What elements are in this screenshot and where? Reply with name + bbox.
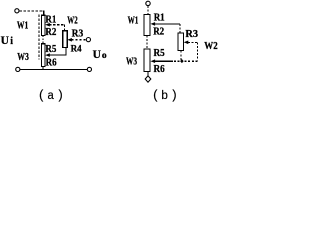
resistor R3 body	[178, 33, 183, 51]
svg-text:R2: R2	[45, 27, 56, 38]
wiper W2: dashed shaft wrap-around	[188, 41, 198, 43]
svg-text:R6: R6	[46, 57, 57, 68]
wire: bottom rail	[20, 68, 87, 70]
gang dashed line left of chain	[38, 15, 40, 60]
wiper W2: dashed shaft to output circle	[71, 39, 86, 41]
svg-text:W3: W3	[126, 57, 137, 68]
resistor body R5+R6 (pot W3)	[144, 49, 150, 72]
wiper W3(b) arrowhead	[151, 59, 156, 63]
resistor body R5+R6 (pot W3)	[41, 44, 45, 67]
wire: R6 bottom to bottom rail	[42, 66, 44, 69]
wiper W1(b) arrowhead	[151, 22, 156, 26]
wire: R6 bottom to terminal	[147, 72, 149, 77]
wiper W1 arrowhead	[45, 23, 50, 27]
terminal: bottom diamond	[145, 76, 151, 82]
wiper W2(b) arrowhead	[184, 41, 189, 45]
svg-text:R5: R5	[45, 44, 56, 55]
resistor body R1+R2 (pot W1)	[144, 14, 150, 35]
svg-text:(b): (b)	[152, 89, 178, 103]
wire: solid elbow down to R1 top	[42, 11, 43, 15]
wiper W1: shaft right and dashed drop to R3	[155, 23, 180, 25]
svg-text:R3: R3	[72, 28, 84, 39]
wire: chain link R2 to R5	[42, 36, 44, 44]
svg-text:W1: W1	[17, 21, 28, 32]
wiper W2 arrowhead	[67, 38, 72, 42]
svg-text:R3: R3	[185, 29, 198, 40]
svg-text:R5: R5	[154, 47, 166, 59]
svg-text:R6: R6	[154, 63, 166, 75]
node: junction dot under R3	[180, 59, 184, 63]
terminal: top circle	[146, 1, 150, 5]
terminal: bottom-right circle	[87, 67, 91, 71]
svg-text:R1: R1	[45, 14, 56, 25]
svg-text:R4: R4	[71, 44, 82, 54]
terminal: bottom-left circle	[16, 67, 20, 71]
svg-text:W2: W2	[67, 15, 77, 26]
svg-text:Uo: Uo	[93, 49, 107, 61]
wiper W1: dashed shaft to R3 top	[49, 24, 64, 26]
wire: R3 bottom down to node	[180, 51, 182, 62]
resistor body R3+R4 (pot W2)	[63, 31, 67, 48]
wiper W3 arrowhead	[45, 53, 50, 57]
svg-text:R2: R2	[153, 27, 164, 38]
wiper W3: solid shaft and riser to R4 bottom	[49, 48, 66, 56]
svg-text:W1: W1	[128, 16, 139, 27]
svg-text:R1: R1	[154, 12, 165, 23]
svg-text:W3: W3	[17, 52, 29, 63]
wire: terminal down to R1	[147, 6, 149, 15]
wire: dashed chain link R2 to R5	[146, 35, 148, 49]
svg-text:(a): (a)	[38, 89, 64, 103]
terminal: input top-left circle	[15, 9, 19, 13]
terminal: output wiper circle	[86, 38, 90, 42]
wiper W3: shaft right merging node line	[155, 60, 173, 62]
svg-text:Ui: Ui	[1, 35, 14, 47]
wire: dashed from input terminal to top of R1 chain	[20, 10, 43, 12]
svg-text:W2: W2	[204, 40, 218, 52]
resistor body R1+R2 (pot W1)	[41, 15, 45, 35]
